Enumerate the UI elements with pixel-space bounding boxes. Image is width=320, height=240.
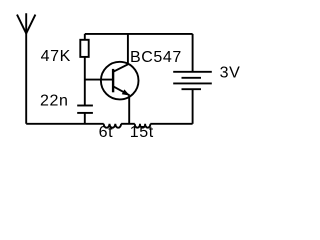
wire bottom rail middle xyxy=(121,123,135,125)
wire collector xyxy=(127,34,129,64)
svg-text:22n: 22n xyxy=(40,92,69,109)
wire emitter xyxy=(128,95,130,124)
wire bottom rail right xyxy=(150,123,192,125)
battery BT1 3V xyxy=(173,34,212,124)
wire base xyxy=(85,79,113,81)
svg-text:47K: 47K xyxy=(41,48,71,65)
resistor R1 47K xyxy=(80,34,88,106)
wire bottom rail left xyxy=(26,123,104,125)
antenna ANT1 xyxy=(17,13,35,124)
wire top rail (VCC) xyxy=(85,33,193,35)
svg-text:BC547: BC547 xyxy=(130,49,182,66)
capacitor C1 22n xyxy=(77,106,93,124)
inductor L2 15t xyxy=(135,124,151,128)
svg-text:6t: 6t xyxy=(99,124,114,141)
svg-text:15t: 15t xyxy=(130,124,154,141)
svg-text:3V: 3V xyxy=(220,64,241,81)
transistor Q1 BC547 xyxy=(101,62,139,100)
inductor L1 6t xyxy=(104,124,121,128)
